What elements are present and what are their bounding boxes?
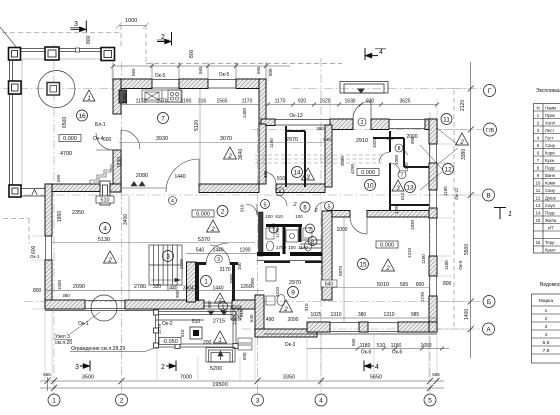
porch rail posts: [154, 310, 239, 349]
top wall right section y=120: [261, 119, 437, 130]
svg-text:8: 8: [311, 239, 314, 245]
svg-text:390: 390: [316, 126, 324, 131]
svg-text:2: 2: [210, 227, 215, 233]
svg-text:Кухн: Кухн: [545, 158, 555, 163]
terrace door Бл-1 arc: [96, 130, 140, 150]
svg-text:Ок-5: Ок-5: [155, 73, 166, 79]
svg-text:3: 3: [74, 21, 78, 28]
svg-text:565: 565: [198, 66, 203, 74]
svg-text:14: 14: [536, 211, 541, 216]
svg-text:810: 810: [275, 214, 283, 219]
svg-text:1440: 1440: [212, 286, 223, 292]
svg-text:5: 5: [428, 398, 432, 405]
svg-text:4: 4: [545, 332, 548, 338]
svg-text:Крыл: Крыл: [545, 248, 556, 253]
bottom wall living: [45, 300, 264, 309]
room 11: [441, 114, 452, 125]
svg-text:3380: 3380: [461, 149, 467, 160]
svg-text:1: 1: [87, 96, 90, 102]
svg-text:2: 2: [161, 364, 165, 371]
svg-text:2730: 2730: [420, 291, 425, 302]
entrance door arc at bay: [353, 101, 371, 119]
svg-text:2910: 2910: [356, 138, 368, 144]
svg-text:1395: 1395: [394, 203, 399, 214]
svg-text:3: 3: [75, 364, 79, 371]
bottom window Ок-1: [45, 301, 157, 311]
svg-text:1170: 1170: [275, 99, 286, 105]
kitchen triangle 2: [224, 147, 237, 160]
terrace inner line: [22, 59, 113, 186]
leader lines to 11/12: [420, 128, 458, 190]
main left wall: [45, 184, 52, 309]
wing fixtures room9: [266, 267, 285, 306]
svg-text:2: 2: [545, 316, 548, 322]
svg-text:1310: 1310: [383, 312, 394, 318]
svg-text:Саун: Саун: [545, 203, 556, 208]
svg-text:470: 470: [191, 286, 200, 292]
svg-text:1290: 1290: [239, 248, 250, 254]
svg-text:1170: 1170: [298, 245, 308, 250]
svg-text:600: 600: [103, 137, 112, 143]
section marker 4 top: [365, 48, 378, 60]
svg-text:1180: 1180: [360, 343, 371, 349]
svg-text:1025: 1025: [310, 312, 321, 318]
WC left wall: [259, 212, 264, 256]
room15 bottom dims: [307, 317, 437, 319]
svg-text:10: 10: [366, 182, 374, 189]
svg-text:Ок-6: Ок-6: [458, 260, 463, 270]
bay window top: [340, 82, 388, 94]
svg-text:Ок-12: Ок-12: [454, 188, 459, 200]
room 2: [217, 206, 228, 217]
fireplace niche: [100, 181, 110, 205]
svg-text:510: 510: [100, 198, 109, 204]
svg-text:3400: 3400: [123, 214, 129, 225]
svg-text:565: 565: [43, 372, 51, 377]
column: [101, 48, 115, 61]
svg-text:Комн: Комн: [545, 181, 556, 186]
svg-text:900: 900: [175, 290, 180, 298]
svg-text:Лест: Лест: [545, 128, 554, 133]
svg-text:3080: 3080: [340, 155, 345, 166]
svg-text:12: 12: [444, 166, 452, 173]
svg-text:910: 910: [277, 176, 286, 182]
svg-text:100: 100: [237, 262, 242, 270]
svg-text:2: 2: [459, 140, 464, 146]
window Ок-13: [275, 120, 425, 129]
svg-text:1520: 1520: [319, 99, 330, 105]
svg-text:3350: 3350: [283, 375, 295, 381]
svg-text:4: 4: [379, 49, 383, 56]
svg-text:2000: 2000: [229, 273, 234, 284]
wing left wall: [255, 295, 264, 337]
svg-text:2: 2: [120, 398, 124, 405]
svg-text:360: 360: [62, 293, 70, 298]
axis grid dash-dot lines: [3, 44, 484, 394]
svg-text:615: 615: [400, 192, 405, 200]
dashed ceiling lines hall: [255, 155, 384, 163]
partition hall14 left: [285, 126, 287, 187]
svg-text:2970: 2970: [286, 137, 298, 143]
svg-text:565: 565: [432, 372, 440, 377]
axis circles bottom: [48, 394, 436, 406]
svg-text:3170: 3170: [219, 267, 230, 273]
svg-text:Сану: Сану: [545, 143, 556, 148]
svg-text:100: 100: [295, 214, 303, 219]
svg-text:1180: 1180: [443, 186, 448, 196]
svg-text:510: 510: [192, 319, 201, 325]
svg-text:см.л.20: см.л.20: [55, 340, 72, 346]
svg-text:640: 640: [323, 137, 331, 142]
svg-text:920: 920: [298, 99, 307, 105]
svg-text:Ок-1: Ок-1: [30, 254, 40, 259]
WC partitions: [266, 225, 302, 254]
svg-text:380: 380: [263, 170, 268, 178]
svg-text:100: 100: [386, 136, 394, 141]
svg-text:В: В: [486, 193, 490, 200]
kitchen right wall lower part: [259, 124, 266, 184]
svg-text:Наим: Наим: [545, 106, 556, 111]
svg-text:Ванн: Ванн: [545, 173, 556, 178]
bottom chain living y290: [45, 290, 264, 292]
svg-text:100: 100: [265, 214, 273, 219]
svg-text:3: 3: [545, 324, 548, 330]
stair right thick wall: [187, 262, 196, 302]
svg-text:800: 800: [443, 281, 452, 287]
svg-text:Бл-1: Бл-1: [95, 122, 106, 128]
svg-text:3070: 3070: [220, 136, 232, 142]
svg-text:1830: 1830: [410, 219, 415, 230]
svg-text:13: 13: [406, 184, 414, 191]
svg-text:1400: 1400: [464, 309, 470, 320]
small post mark: [76, 48, 80, 52]
svg-text:9: 9: [291, 289, 295, 296]
svg-text:640: 640: [249, 314, 254, 322]
svg-text:565: 565: [56, 174, 61, 182]
svg-text:2: 2: [283, 307, 288, 313]
kitchen interior dim chain y105: [121, 104, 259, 106]
column: [9, 48, 21, 61]
svg-text:2: 2: [217, 298, 221, 304]
bottom section markers: [80, 361, 90, 372]
svg-text:100: 100: [288, 245, 296, 250]
svg-text:3410: 3410: [275, 286, 280, 297]
section marker 1 right: [494, 208, 506, 220]
svg-text:2090: 2090: [287, 317, 298, 323]
svg-text:8: 8: [398, 146, 401, 152]
svg-text:5650: 5650: [370, 375, 382, 381]
svg-text:3500: 3500: [82, 375, 94, 381]
svg-text:7,8: 7,8: [543, 348, 550, 354]
svg-text:Экспликация: Экспликация: [536, 88, 560, 94]
-0.050 box: [159, 338, 181, 346]
svg-text:1650: 1650: [420, 343, 431, 349]
partition hall14 right small: [304, 131, 306, 187]
svg-text:11: 11: [536, 188, 541, 193]
svg-text:10: 10: [536, 181, 541, 186]
svg-text:1180: 1180: [444, 260, 449, 270]
living room top wall: [45, 184, 100, 192]
right wall windows: [430, 144, 437, 296]
svg-text:900: 900: [410, 136, 415, 144]
svg-text:Марка: Марка: [539, 298, 554, 304]
kitchen top wall: [113, 79, 266, 89]
svg-text:2780: 2780: [134, 284, 146, 290]
svg-text:Ок-6: Ок-6: [361, 350, 372, 356]
svg-text:1440: 1440: [212, 248, 223, 254]
svg-text:2: 2: [221, 208, 225, 215]
column: [45, 47, 59, 60]
svg-text:1560: 1560: [57, 279, 62, 290]
svg-text:600: 600: [242, 352, 247, 360]
svg-text:1700: 1700: [276, 245, 287, 250]
svg-text:600: 600: [31, 245, 37, 254]
room 15: [358, 259, 369, 270]
boiler black square: [190, 327, 202, 339]
top right dim chain y104: [268, 104, 437, 106]
svg-text:1565: 1565: [216, 99, 227, 105]
svg-text:1630: 1630: [344, 99, 355, 105]
svg-text:6: 6: [279, 190, 282, 196]
svg-text:1430: 1430: [122, 92, 127, 103]
svg-text:4: 4: [171, 199, 174, 205]
svg-text:1: 1: [204, 278, 208, 285]
terrace outline: [9, 49, 115, 198]
svg-text:3625: 3625: [399, 99, 410, 105]
svg-text:565: 565: [256, 66, 261, 74]
svg-text:16: 16: [78, 113, 86, 120]
svg-text:19500: 19500: [212, 382, 227, 388]
510 box label: [96, 196, 114, 204]
svg-text:Холл: Холл: [545, 121, 556, 126]
porch triangle 1: [214, 331, 227, 344]
hall door arc: [206, 243, 230, 265]
svg-text:2000: 2000: [250, 277, 255, 288]
extension lines: [32, 68, 467, 380]
svg-text:5120: 5120: [194, 120, 200, 131]
svg-text:4290: 4290: [350, 163, 355, 174]
svg-text:2090: 2090: [73, 284, 85, 290]
svg-text:2: 2: [361, 120, 364, 126]
svg-text:1: 1: [221, 304, 224, 310]
svg-text:1364: 1364: [232, 314, 237, 325]
svg-text:6500: 6500: [62, 117, 68, 128]
svg-text:565: 565: [400, 282, 409, 288]
svg-text:200: 200: [203, 340, 212, 346]
svg-text:5010: 5010: [377, 282, 389, 288]
wing room9 partition: [264, 261, 290, 263]
living room dims: [52, 196, 255, 300]
svg-text:13: 13: [536, 203, 541, 208]
svg-text:1830: 1830: [117, 157, 123, 168]
svg-text:800: 800: [33, 288, 42, 294]
wing bottom wall left part: [255, 329, 317, 337]
room 10: [365, 180, 376, 191]
svg-text:2715: 2715: [213, 319, 225, 325]
svg-text:565: 565: [351, 338, 356, 346]
svg-text:Ок-13: Ок-13: [289, 113, 303, 119]
kitchen counters: [142, 90, 182, 102]
svg-text:565: 565: [131, 68, 136, 76]
axis circles right: [483, 85, 497, 336]
svg-text:1850: 1850: [57, 211, 63, 222]
svg-text:1000: 1000: [394, 154, 399, 165]
svg-text:5: 5: [327, 204, 330, 210]
svg-text:1020: 1020: [372, 137, 377, 148]
section marker 2 top: [157, 32, 172, 46]
svg-text:Душе: Душе: [545, 196, 557, 201]
room 13: [405, 182, 416, 193]
svg-text:1190: 1190: [181, 99, 192, 105]
svg-text:910: 910: [304, 303, 309, 311]
center circle column: [38, 71, 75, 108]
svg-text:1779: 1779: [157, 323, 162, 334]
svg-text:0.000: 0.000: [380, 243, 394, 249]
svg-text:Гост: Гост: [545, 136, 554, 141]
svg-text:0.000: 0.000: [63, 136, 77, 142]
svg-text:1440: 1440: [174, 174, 185, 180]
room circle 16: [77, 110, 88, 121]
svg-text:2: 2: [227, 154, 232, 160]
room 12: [443, 164, 454, 175]
svg-text:Подс: Подс: [545, 211, 556, 216]
svg-text:1310: 1310: [407, 247, 412, 258]
svg-text:800: 800: [416, 282, 425, 288]
svg-text:540: 540: [196, 248, 205, 254]
svg-text:2350: 2350: [72, 210, 84, 216]
svg-text:1480: 1480: [242, 107, 247, 118]
svg-text:5870: 5870: [338, 265, 343, 276]
Узел 3 detail: [91, 295, 117, 321]
small wall above room8: [373, 137, 404, 139]
svg-text:316: 316: [198, 99, 207, 105]
svg-text:1170: 1170: [136, 99, 147, 105]
svg-text:1: 1: [545, 308, 548, 314]
right wall: [429, 119, 437, 332]
stairs small up: [300, 240, 322, 248]
diagonal leader top-left: [0, 27, 17, 48]
duct dark rect: [119, 90, 127, 103]
svg-text:2: 2: [385, 266, 390, 272]
svg-text:ИТ: ИТ: [548, 226, 554, 231]
svg-text:330: 330: [153, 284, 162, 290]
svg-text:А: А: [486, 327, 491, 334]
svg-text:4: 4: [319, 398, 323, 405]
svg-text:Г/В: Г/В: [486, 128, 495, 134]
svg-text:3640: 3640: [238, 149, 244, 160]
opening arcs central wall: [121, 159, 276, 192]
kitchen left wall: [113, 79, 121, 192]
svg-text:1000: 1000: [336, 227, 347, 233]
ticks bottom: [45, 378, 440, 392]
svg-text:Ок-1: Ок-1: [78, 321, 89, 327]
svg-text:2: 2: [292, 202, 296, 208]
svg-text:2970: 2970: [289, 280, 301, 286]
svg-text:2100: 2100: [179, 258, 184, 269]
svg-text:Жила: Жила: [545, 218, 557, 223]
partition right wing room10/13: [389, 131, 391, 152]
section marker 3 top: [71, 21, 87, 33]
svg-text:510: 510: [377, 343, 386, 349]
svg-text:1: 1: [508, 211, 512, 218]
room 9: [288, 287, 299, 298]
svg-text:800: 800: [189, 49, 195, 58]
room15 bottom wall: [307, 322, 437, 332]
top dashed boundary lines: [2, 25, 454, 330]
svg-text:Ок-2: Ок-2: [162, 321, 173, 327]
svg-text:5200: 5200: [210, 366, 222, 372]
kitchen inner dims: [119, 89, 325, 187]
svg-text:510: 510: [180, 329, 185, 337]
stairs main: [149, 245, 182, 285]
svg-text:3: 3: [217, 257, 220, 263]
svg-text:Ограждение см.л.28,29: Ограждение см.л.28,29: [71, 346, 125, 352]
svg-text:7: 7: [308, 227, 311, 233]
svg-text:11: 11: [443, 116, 450, 123]
svg-text:1: 1: [52, 398, 56, 405]
room 3 stairs: [163, 251, 174, 262]
svg-text:16: 16: [536, 240, 541, 245]
triangle 1 terrace: [83, 90, 95, 102]
svg-text:800: 800: [86, 35, 92, 44]
svg-text:3: 3: [166, 253, 170, 260]
svg-text:5500: 5500: [464, 244, 470, 255]
central horizontal wall: [110, 184, 325, 193]
svg-text:15: 15: [536, 218, 541, 223]
svg-text:4: 4: [103, 225, 107, 232]
hall 14 right wall: [325, 125, 332, 187]
top small dims: [116, 23, 149, 29]
svg-text:1570: 1570: [156, 99, 167, 105]
0.000 box terrace: [59, 135, 81, 143]
entrance hall partitions: [195, 262, 238, 301]
shower tray: [286, 230, 298, 242]
room 14: [292, 167, 303, 178]
room 4: [100, 223, 111, 234]
big central wall x=322-332 lower: [322, 211, 332, 300]
svg-text:Терр: Терр: [545, 240, 555, 245]
svg-text:Сану: Сану: [545, 188, 556, 193]
svg-text:Ок-5: Ок-5: [219, 72, 230, 78]
svg-text:N: N: [536, 106, 539, 111]
svg-text:600: 600: [207, 300, 212, 308]
room 1: [201, 276, 212, 287]
svg-text:3: 3: [256, 398, 260, 405]
column: [9, 185, 21, 197]
rooms 5-8 WC: [261, 200, 270, 209]
left wall window Ок-1: [46, 236, 52, 260]
svg-text:Кори: Кори: [545, 151, 555, 156]
svg-text:5370: 5370: [198, 237, 210, 243]
svg-text:800: 800: [268, 68, 273, 76]
svg-text:Ок-6: Ок-6: [392, 350, 403, 356]
svg-text:1730: 1730: [275, 227, 280, 238]
svg-text:4: 4: [375, 364, 379, 371]
svg-text:12: 12: [536, 196, 541, 201]
svg-text:4700: 4700: [60, 151, 72, 157]
svg-text:Г: Г: [488, 88, 492, 95]
door room15 arc: [350, 217, 367, 234]
svg-text:7: 7: [161, 115, 165, 122]
svg-text:0.000: 0.000: [196, 212, 210, 218]
svg-text:2120: 2120: [460, 100, 466, 111]
svg-text:1310: 1310: [330, 312, 341, 318]
svg-text:1000: 1000: [125, 18, 137, 24]
svg-text:490: 490: [266, 317, 275, 323]
svg-text:0.000: 0.000: [361, 170, 375, 176]
svg-text:Ок-3: Ок-3: [285, 342, 296, 348]
WC block bottom wall: [257, 252, 322, 256]
